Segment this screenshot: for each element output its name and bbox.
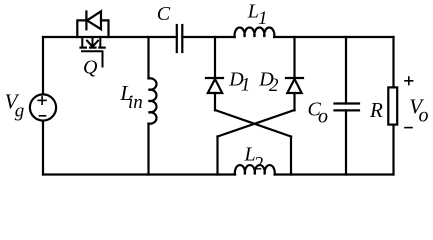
capacitor C plates xyxy=(176,25,178,52)
polarity marks of Vg xyxy=(38,97,46,116)
wire left rail lower xyxy=(42,121,44,175)
svg-text:2: 2 xyxy=(269,75,279,96)
svg-text:in: in xyxy=(128,92,143,113)
plus sign of Vo xyxy=(405,77,413,128)
capacitor Co wire lower xyxy=(345,110,347,174)
transistor Q gate plate and lead xyxy=(82,51,103,66)
svg-text:R: R xyxy=(369,98,383,122)
diode bar of Q body diode xyxy=(85,12,87,30)
wire bottom rail right segment xyxy=(275,173,394,175)
diode D2 wire lower xyxy=(293,93,295,110)
inductor L1 coil xyxy=(235,28,275,37)
svg-text:o: o xyxy=(318,106,328,128)
wire top rail middle segment xyxy=(182,36,234,38)
wire top rail right segment xyxy=(274,36,393,38)
diode triangle of Q body diode xyxy=(87,11,101,29)
transistor Q body-diode loop xyxy=(77,20,86,37)
transistor Q body arrow xyxy=(87,37,98,47)
wire left rail upper xyxy=(42,37,44,94)
inductor Lin coil xyxy=(149,78,157,124)
capacitor Co plates xyxy=(335,102,360,104)
diode D2 wire upper xyxy=(293,37,295,78)
source Vg xyxy=(30,94,56,120)
svg-text:Q: Q xyxy=(83,57,98,79)
wire right rail upper xyxy=(392,37,394,87)
diode D1 triangle xyxy=(208,79,222,93)
svg-text:L: L xyxy=(247,0,259,22)
inductor L2 coil xyxy=(235,165,275,174)
diode D2 bar xyxy=(286,77,303,79)
inductor Lin wire lower xyxy=(147,124,149,175)
wire right stub to bottom rail xyxy=(290,137,292,175)
svg-text:o: o xyxy=(419,105,429,127)
wire top rail left segment xyxy=(43,36,177,38)
capacitor Co wire upper xyxy=(345,37,347,104)
wire crossing diagonal from D1 xyxy=(215,110,291,137)
wire bottom rail left segment xyxy=(43,173,235,175)
svg-text:1: 1 xyxy=(258,8,268,29)
minus sign of Vo xyxy=(405,127,412,129)
transistor Q mosfet source stub xyxy=(99,37,101,46)
diode D1 wire lower xyxy=(214,93,216,110)
resistor R box xyxy=(388,87,397,124)
svg-text:g: g xyxy=(15,100,24,121)
svg-text:1: 1 xyxy=(241,75,251,96)
inductor Lin wire upper xyxy=(147,37,149,78)
wire crossing diagonal from D2 xyxy=(218,110,295,137)
diode D1 bar xyxy=(206,77,223,79)
transistor Q channel segments xyxy=(79,46,105,48)
wire left stub to bottom rail xyxy=(216,137,218,175)
transistor Q mosfet drain stub xyxy=(81,37,83,46)
svg-text:2: 2 xyxy=(254,153,264,174)
wire right rail lower xyxy=(392,125,394,175)
diode D2 triangle xyxy=(287,79,301,93)
svg-text:C: C xyxy=(157,3,171,25)
diode D1 wire upper xyxy=(214,37,216,78)
